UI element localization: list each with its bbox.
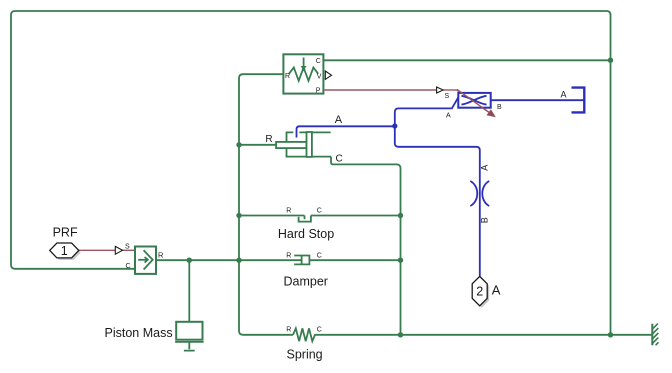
svg-text:B: B (497, 104, 502, 111)
svg-text:P: P (316, 87, 321, 94)
svg-text:Spring: Spring (287, 348, 323, 362)
svg-text:Damper: Damper (284, 275, 328, 289)
svg-text:C: C (317, 327, 322, 334)
svg-text:R: R (285, 73, 290, 80)
svg-text:C: C (316, 58, 321, 65)
svg-text:R: R (265, 134, 272, 145)
svg-text:R: R (286, 327, 291, 334)
svg-text:A: A (446, 112, 451, 119)
svg-text:R: R (158, 250, 164, 259)
svg-text:C: C (317, 207, 322, 214)
svg-text:Hard Stop: Hard Stop (278, 227, 334, 241)
svg-text:R: R (286, 207, 291, 214)
svg-text:A: A (335, 114, 343, 126)
svg-text:2: 2 (476, 285, 483, 299)
svg-text:C: C (336, 154, 343, 165)
svg-text:R: R (286, 252, 291, 259)
svg-text:A: A (492, 282, 501, 297)
svg-text:A: A (561, 90, 567, 100)
svg-text:B: B (480, 217, 490, 223)
svg-text:S: S (445, 93, 450, 100)
svg-text:C: C (317, 252, 322, 259)
svg-text:1: 1 (61, 244, 68, 258)
svg-text:S: S (125, 243, 130, 250)
svg-text:V: V (317, 74, 322, 81)
svg-text:A: A (480, 165, 490, 171)
svg-text:PRF: PRF (53, 225, 78, 239)
svg-text:Piston Mass: Piston Mass (105, 326, 173, 340)
svg-text:C: C (126, 263, 131, 270)
